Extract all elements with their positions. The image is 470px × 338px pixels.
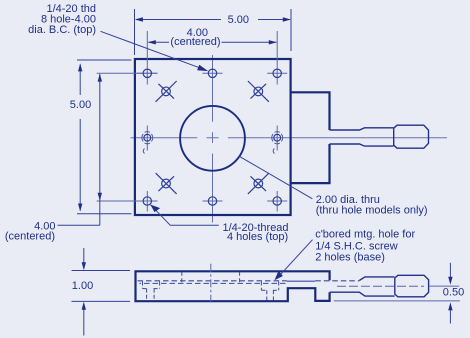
svg-text:2 holes (base): 2 holes (base)	[315, 252, 385, 264]
horizontal centerline (plate + shaft axis)	[131, 137, 448, 139]
plate body (top view)	[135, 59, 291, 215]
4.00 horizontal dimension	[148, 41, 276, 43]
side view vertical centerline	[210, 264, 212, 305]
5.00 horizontal dimension	[135, 9, 292, 55]
1.00 vertical dimension	[72, 248, 131, 336]
hidden lines: 2.00 thru hole	[181, 272, 183, 284]
svg-text:4 holes (top): 4 holes (top)	[227, 231, 288, 243]
threaded X hole upper-right	[254, 87, 263, 96]
micrometer shaft thin section (top view)	[330, 128, 394, 146]
mounting hole bottom-middle	[208, 197, 216, 205]
svg-text:dia. B.C. (top): dia. B.C. (top)	[28, 24, 96, 36]
leader from central hole	[239, 156, 312, 199]
mounting hole top-right	[273, 69, 281, 77]
leader to bottom-left hole	[151, 205, 219, 226]
threaded X hole upper-left	[156, 81, 269, 194]
mounting hole bottom-left	[143, 197, 151, 205]
0.50 dimension (right)	[449, 263, 451, 324]
vertical centerline (plate)	[212, 55, 214, 223]
5.00 vertical dimension (left)	[77, 60, 132, 214]
svg-text:(centered): (centered)	[5, 231, 55, 243]
leader to c'bored hole	[278, 240, 313, 278]
hidden c'bored hole (right)	[261, 282, 278, 302]
hidden c'bored hole (left)	[143, 282, 160, 302]
micrometer clamp block (top view)	[291, 92, 330, 183]
svg-text:c'bored mtg. hole for: c'bored mtg. hole for	[315, 229, 415, 241]
side threaded hole mid-right	[274, 134, 281, 141]
svg-text:0.50: 0.50	[443, 287, 464, 299]
mounting hole top-middle	[208, 69, 216, 77]
side view shaft thin section	[330, 277, 395, 296]
bottom extension line	[334, 300, 460, 302]
mounting hole top-left	[143, 69, 151, 77]
central 2.00 dia thru hole	[180, 106, 245, 171]
svg-text:5.00: 5.00	[228, 14, 249, 26]
hole crosshairs	[137, 72, 157, 74]
mounting hole bottom-right	[273, 197, 281, 205]
svg-text:(thru hole models only): (thru hole models only)	[316, 205, 428, 217]
4.00 vertical dimension (left, centered)	[58, 74, 100, 225]
threaded X hole lower-left	[162, 179, 171, 188]
column centerline extensions (4.00 dim)	[146, 31, 148, 85]
leader to top-middle hole	[101, 31, 202, 68]
hidden lines: internal slot	[138, 280, 287, 282]
side threaded hole mid-left	[144, 134, 151, 141]
svg-text:5.00: 5.00	[70, 99, 91, 111]
svg-text:(centered): (centered)	[170, 36, 220, 48]
side view outline	[136, 271, 330, 301]
svg-text:1.00: 1.00	[72, 280, 93, 292]
micrometer knob (top view)	[394, 125, 429, 148]
threaded X hole lower-right	[254, 179, 263, 188]
side shaft centerline	[337, 285, 424, 287]
row centerline extensions (left 4.00 dim)	[97, 72, 158, 74]
side view knob	[395, 275, 429, 297]
